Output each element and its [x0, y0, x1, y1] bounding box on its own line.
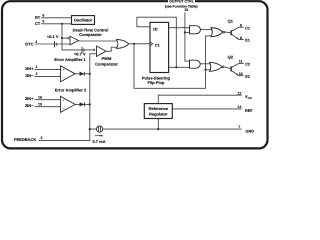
wire bottom rail with current source to GND pin 7	[90, 128, 242, 130]
node CT sawtooth junction	[61, 23, 63, 25]
svg-text:Comparator: Comparator	[79, 32, 102, 37]
oscillator box	[72, 16, 95, 25]
wire output ctrl to AND1 input	[185, 31, 190, 33]
nor-gate N1	[211, 28, 225, 37]
svg-text:13: 13	[184, 8, 188, 12]
wire 2IN- line pin 15	[35, 106, 61, 108]
svg-text:E1: E1	[245, 39, 250, 43]
flip-flop U3 pulse-steering flip-flop	[142, 22, 171, 84]
wire DTC comparator output to OR gate	[79, 40, 118, 42]
wire sawtooth to DTC comparator input	[62, 37, 67, 39]
transistor Q1	[231, 27, 244, 39]
svg-text:Regulator: Regulator	[149, 111, 168, 116]
wire 1IN+ line pin 1	[35, 68, 61, 70]
svg-text:CT: CT	[35, 21, 41, 26]
node error amplifier 1 output junction	[89, 73, 91, 75]
svg-text:REF: REF	[245, 109, 253, 113]
reference regulator box	[144, 104, 172, 119]
svg-text:2IN−: 2IN−	[25, 103, 34, 108]
node sawtooth to DTC comparator	[61, 37, 63, 39]
or-gate blanking OR	[117, 39, 129, 48]
wire PWM comparator output to OR gate	[106, 47, 118, 51]
wire REF line pin 14	[172, 108, 241, 110]
svg-text:≈0.7 V: ≈0.7 V	[74, 52, 86, 57]
node feedback to bottom rail junction	[89, 128, 91, 130]
svg-text:≈0.1 V: ≈0.1 V	[47, 34, 59, 39]
node blanking branch junction	[133, 43, 135, 45]
svg-text:2: 2	[36, 72, 38, 76]
svg-text:OUTPUT CTRL: OUTPUT CTRL	[169, 0, 195, 4]
wire OR output to flip-flop clock	[129, 43, 150, 45]
svg-text:9: 9	[240, 36, 242, 40]
svg-text:0.7 mA: 0.7 mA	[92, 139, 105, 144]
node error amplifier 2 output junction	[89, 103, 91, 105]
wire blanking to NOR2 input	[206, 69, 213, 71]
wire VCC rail pin 12	[158, 95, 241, 103]
wire blanking signal route to NOR gates	[134, 36, 213, 88]
svg-text:C1: C1	[155, 44, 160, 48]
node blanking to NOR2 junction	[204, 69, 206, 71]
svg-text:Comparator: Comparator	[95, 61, 118, 66]
svg-text:5: 5	[42, 20, 44, 24]
op-amp U1 dead-time control comparator	[67, 28, 108, 45]
svg-text:Oscillator: Oscillator	[74, 18, 93, 23]
frame rounded border	[2, 1, 268, 148]
svg-text:14: 14	[237, 105, 241, 109]
svg-text:8: 8	[240, 23, 242, 27]
wire AND1 output to NOR1	[200, 29, 212, 31]
node loop to Q-bar junction	[175, 66, 177, 68]
op-amp U2 PWM comparator	[93, 46, 118, 66]
battery 0.1 V offset	[55, 41, 57, 47]
svg-text:10: 10	[239, 72, 243, 76]
svg-text:Flip-Flop: Flip-Flop	[147, 80, 164, 85]
diode D2 at error amplifier 2 output	[80, 102, 85, 106]
wire reference regulator to ground rail	[157, 119, 159, 130]
op-amp error amplifier 1	[54, 57, 86, 82]
svg-text:Reference: Reference	[149, 106, 169, 111]
wire RT line	[41, 17, 72, 19]
svg-text:Q1: Q1	[228, 19, 234, 24]
wire feedback net	[39, 54, 97, 141]
svg-text:C1: C1	[245, 26, 250, 30]
and-gate A1	[190, 26, 201, 34]
svg-text:VCC: VCC	[245, 94, 253, 100]
transistor Q2	[231, 63, 244, 75]
wire flip-flop Q output to AND1	[168, 27, 189, 29]
white-out over border for OUTPUT CTRL text	[168, 0, 195, 4]
svg-text:Error Amplifier 2: Error Amplifier 2	[55, 88, 87, 93]
svg-text:GND: GND	[246, 129, 255, 133]
svg-text:3: 3	[41, 136, 43, 140]
op-amp error amplifier 2	[55, 88, 87, 113]
svg-text:15: 15	[38, 102, 42, 106]
wire flip-flop Q-bar output to AND2	[168, 66, 189, 68]
nor-gate N2	[210, 62, 224, 71]
wire AND2 output to NOR2	[200, 63, 212, 65]
svg-text:1IN−: 1IN−	[25, 73, 34, 78]
node regulator ground junction	[157, 128, 159, 130]
svg-text:Q2: Q2	[228, 55, 234, 60]
wire error amplifier 2 output	[75, 103, 90, 105]
wire CT line	[41, 23, 72, 25]
wire output ctrl pin 13 vertical	[185, 12, 190, 61]
svg-text:E2: E2	[245, 75, 250, 79]
wire NOR2 output to Q2 base	[224, 67, 231, 69]
svg-text:(see Function Table): (see Function Table)	[165, 4, 198, 8]
wire flip-flop 1D feedback loop	[137, 17, 176, 67]
battery 0.7 V offset	[82, 47, 84, 54]
svg-text:PWM: PWM	[102, 56, 112, 61]
svg-text:RT: RT	[35, 15, 41, 20]
and-gate A2	[190, 60, 201, 68]
wire error amplifier 1 output	[75, 73, 90, 75]
wire 1IN- line pin 2	[35, 75, 61, 77]
wire DTC pin line	[35, 43, 71, 45]
svg-text:Error Amplifier 1: Error Amplifier 1	[54, 57, 86, 62]
svg-text:6: 6	[42, 14, 44, 18]
svg-text:FEEDBACK: FEEDBACK	[14, 137, 36, 142]
wire sawtooth vertical	[62, 24, 93, 50]
svg-text:12: 12	[237, 91, 241, 95]
svg-text:DTC: DTC	[25, 42, 33, 47]
svg-text:1IN+: 1IN+	[25, 66, 34, 71]
svg-text:1: 1	[36, 65, 38, 69]
node output ctrl to AND1 junction	[184, 31, 186, 33]
svg-text:C2: C2	[245, 62, 250, 66]
svg-text:2IN+: 2IN+	[25, 96, 34, 101]
svg-text:7: 7	[238, 125, 240, 129]
svg-text:1D: 1D	[153, 27, 158, 31]
current source 0.7 mA	[92, 126, 105, 144]
svg-text:16: 16	[38, 95, 42, 99]
svg-text:4: 4	[35, 40, 37, 44]
diode D1 at error amplifier 1 output	[80, 72, 85, 76]
svg-text:11: 11	[239, 60, 243, 64]
wire NOR1 output to Q1 base	[225, 31, 231, 34]
wire 2IN+ line pin 16	[35, 99, 61, 101]
